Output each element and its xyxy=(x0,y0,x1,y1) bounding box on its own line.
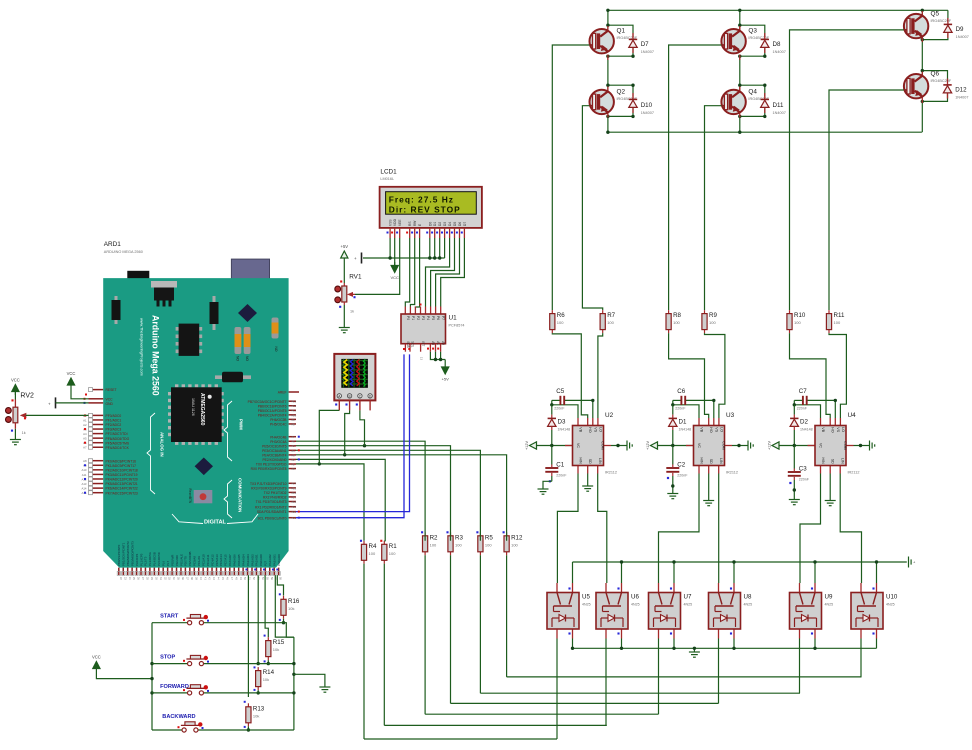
svg-text:R13: R13 xyxy=(253,705,265,712)
svg-text:A8: A8 xyxy=(83,459,87,463)
wire button pin right rail xyxy=(275,575,294,637)
svg-text:#17: #17 xyxy=(292,495,297,499)
wire U10 emitter to rail xyxy=(876,639,878,649)
ground U3 SD xyxy=(703,499,714,506)
svg-text:VC: VC xyxy=(819,443,823,448)
svg-text:#8: #8 xyxy=(292,422,296,426)
svg-text:1N4007: 1N4007 xyxy=(641,111,654,115)
svg-text:C6: C6 xyxy=(677,388,685,395)
svg-text:PWM: PWM xyxy=(239,419,244,430)
wire U9 emitter to rail xyxy=(814,639,816,649)
diode D12 xyxy=(943,79,968,100)
svg-text:100: 100 xyxy=(673,320,680,325)
wire Q2 gate to R7 xyxy=(582,106,602,310)
svg-text:R4: R4 xyxy=(369,543,377,550)
node Q5 junctions xyxy=(921,9,924,12)
svg-text:D8: D8 xyxy=(773,41,781,48)
svg-text:220nF: 220nF xyxy=(675,406,686,410)
svg-text:#20: #20 xyxy=(292,510,297,514)
svg-text:10k: 10k xyxy=(288,606,294,611)
svg-text:PB1/SCK/PCINT1: PB1/SCK/PCINT1 xyxy=(122,542,126,566)
svg-text:ON: ON xyxy=(236,355,240,361)
wire D0 down xyxy=(429,238,431,258)
resistor R4 xyxy=(361,541,377,564)
node U2 VB junction xyxy=(550,403,553,406)
svg-text:PF0/ADC0: PF0/ADC0 xyxy=(106,414,122,418)
svg-text:220nF: 220nF xyxy=(797,406,808,410)
wire VDD to VCC arrow xyxy=(394,238,396,265)
wire U8 collector to rail xyxy=(733,562,735,583)
optocoupler U6 xyxy=(596,583,640,639)
wire U2 LIN to U6 xyxy=(598,474,607,584)
wire R9 to U3 LO xyxy=(705,333,725,418)
wire button pin R16 xyxy=(277,575,283,595)
ground RV2 xyxy=(10,438,21,445)
svg-text:PE3/OC3A/AIN1: PE3/OC3A/AIN1 xyxy=(262,449,287,453)
wire Q3 collector to D8 cathode row xyxy=(740,25,765,36)
svg-text:#6: #6 xyxy=(292,440,296,444)
svg-text:VS: VS xyxy=(714,427,718,432)
svg-text:PG5/OC0B: PG5/OC0B xyxy=(188,551,192,566)
svg-text:R12: R12 xyxy=(511,534,523,541)
svg-text:PB3/MISO/PCINT3: PB3/MISO/PCINT3 xyxy=(130,541,134,566)
svg-text:ANALOG IN: ANALOG IN xyxy=(160,432,165,457)
svg-text:D1: D1 xyxy=(433,222,437,226)
node rail-U8 xyxy=(732,560,735,563)
svg-text:A13: A13 xyxy=(82,482,87,486)
power VCC down arrow xyxy=(390,262,399,280)
node erail-U5 xyxy=(571,647,574,650)
diode D8 xyxy=(761,33,786,54)
svg-text:PC1/A9: PC1/A9 xyxy=(197,556,201,566)
svg-text:LIN: LIN xyxy=(719,458,723,464)
svg-text:ON: ON xyxy=(275,346,279,352)
svg-text:Q1: Q1 xyxy=(617,28,626,35)
svg-text:COM: COM xyxy=(843,441,847,449)
svg-text:PK1/ADC9/PCINT17: PK1/ADC9/PCINT17 xyxy=(106,464,137,468)
svg-text:RS: RS xyxy=(408,221,412,226)
svg-text:PA0/AD0: PA0/AD0 xyxy=(259,554,263,566)
resistor R3 xyxy=(448,532,464,555)
wire VEE to RV1 xyxy=(355,238,400,294)
wire RW to U1 P1 xyxy=(410,238,414,307)
resistor R14 xyxy=(256,667,275,690)
wire U4 bootstrap net / VS node xyxy=(794,399,803,401)
power +5V terminal RV1 xyxy=(341,244,349,262)
wire FORWARD row xyxy=(152,692,188,694)
svg-text:PL5/OC5C: PL5/OC5C xyxy=(157,552,161,566)
transistor Q6 xyxy=(904,70,952,103)
wire R5 bottom xyxy=(479,555,481,693)
svg-text:RX1 PD2/RXD1/INT2: RX1 PD2/RXD1/INT2 xyxy=(255,505,287,509)
resistor R2 xyxy=(423,532,439,555)
wire VSS down xyxy=(389,238,391,258)
wire U4 COM xyxy=(854,445,868,447)
wire phase A midpoint xyxy=(607,56,609,92)
svg-text:PCF8574: PCF8574 xyxy=(449,324,465,328)
svg-text:D3: D3 xyxy=(443,222,447,226)
wire D5 to U1 P5 xyxy=(431,238,455,307)
svg-text:220nF: 220nF xyxy=(556,473,567,477)
node scope taps xyxy=(363,444,366,447)
svg-text:PF3/ADC3: PF3/ADC3 xyxy=(106,428,122,432)
wire R14 rows xyxy=(257,662,260,665)
svg-text:D2: D2 xyxy=(438,222,442,226)
svg-text:1N4007: 1N4007 xyxy=(641,50,654,54)
wire SDA I2C xyxy=(296,354,410,511)
wire R4 bottom xyxy=(363,564,365,739)
svg-text:PC5/A13: PC5/A13 xyxy=(215,554,219,566)
svg-text:4N25: 4N25 xyxy=(582,603,591,607)
wire START row xyxy=(152,622,188,624)
svg-text:PL4/OC5B: PL4/OC5B xyxy=(153,552,157,566)
svg-text:TX0 PE1/TXD0/PDO: TX0 PE1/TXD0/PDO xyxy=(256,463,287,467)
optocoupler U8 xyxy=(709,583,753,639)
svg-text:PC0/A8: PC0/A8 xyxy=(193,556,197,566)
svg-text:R10: R10 xyxy=(794,312,806,319)
svg-text:COMUNICATION: COMUNICATION xyxy=(238,478,243,512)
svg-text:100: 100 xyxy=(485,542,492,547)
wire staircase row to U5 xyxy=(364,738,557,740)
svg-text:PH4/OC4B: PH4/OC4B xyxy=(270,435,287,439)
svg-text:P1: P1 xyxy=(411,316,415,320)
svg-text:PF4/ADC4/TCK: PF4/ADC4/TCK xyxy=(106,446,130,450)
svg-text:BACKWARD: BACKWARD xyxy=(162,714,195,720)
wire scope A xyxy=(319,410,339,464)
svg-text:D11: D11 xyxy=(773,102,784,109)
svg-text:LO: LO xyxy=(719,427,723,432)
resistor R15 xyxy=(266,637,285,660)
capacitor C5 xyxy=(554,388,565,411)
svg-text:220nF: 220nF xyxy=(799,477,810,481)
wire RV1 to ground xyxy=(343,305,345,326)
wire Q4 collector to D11 cathode row xyxy=(740,85,765,96)
node Q2 collector junction xyxy=(606,84,609,87)
wire U10 collector to rail xyxy=(876,562,878,583)
svg-text:PL7: PL7 xyxy=(166,560,170,566)
svg-text:VS: VS xyxy=(593,427,597,432)
svg-text:4N25: 4N25 xyxy=(886,603,895,607)
svg-text:ARDUINO MEGA 2560: ARDUINO MEGA 2560 xyxy=(104,250,143,254)
wire D3 down xyxy=(444,238,446,258)
wire staircase row to U6 xyxy=(384,724,607,726)
wire U7 emitter to rail xyxy=(673,639,675,649)
svg-text:#18: #18 xyxy=(292,500,297,504)
node U3 VS junction xyxy=(712,399,715,402)
svg-text:#13: #13 xyxy=(292,400,297,404)
svg-text:HO: HO xyxy=(709,427,713,433)
wire R7 to U2 LO xyxy=(598,333,603,418)
svg-text:FORWARD: FORWARD xyxy=(160,684,189,690)
wire U10 LED to row xyxy=(860,639,862,677)
wire U7 LED to row xyxy=(658,639,660,715)
svg-text:VC: VC xyxy=(576,443,580,448)
svg-text:PA1/AD1: PA1/AD1 xyxy=(255,554,259,566)
svg-text:STOP: STOP xyxy=(160,655,175,661)
wire scope B xyxy=(345,410,350,454)
svg-text:PG0/WR: PG0/WR xyxy=(170,555,174,566)
transistor Q1 xyxy=(590,26,638,60)
svg-text:1N4148: 1N4148 xyxy=(800,427,813,431)
svg-text:1N4007: 1N4007 xyxy=(956,35,969,39)
wire SCL I2C xyxy=(296,354,404,517)
node U2 VC junction xyxy=(550,444,553,447)
svg-text:VCC: VCC xyxy=(67,371,76,376)
power +12V terminal U2 xyxy=(525,441,537,450)
svg-text:DIGITAL: DIGITAL xyxy=(204,520,227,526)
svg-text:VSS: VSS xyxy=(389,219,393,226)
optocoupler U5 xyxy=(547,583,591,639)
capacitor C7 xyxy=(797,388,808,411)
node erail-U7 xyxy=(672,647,675,650)
wire R16 to START row xyxy=(283,619,285,623)
wire to buttons ground xyxy=(294,674,325,685)
svg-text:RX0 PE0/RXD0/PCINT8: RX0 PE0/RXD0/PCINT8 xyxy=(251,467,287,471)
svg-text:P0: P0 xyxy=(406,316,410,320)
svg-text:PK2/ADC10/PCINT18: PK2/ADC10/PCINT18 xyxy=(106,468,138,472)
potentiometer RV1 xyxy=(335,274,362,314)
capacitor C1 xyxy=(545,446,567,483)
svg-text:Freq: 27.5 Hz: Freq: 27.5 Hz xyxy=(389,195,454,205)
node U4 VC junction xyxy=(793,444,796,447)
capacitor C2 xyxy=(666,446,688,484)
svg-text:RV1: RV1 xyxy=(349,274,362,281)
svg-text:A11: A11 xyxy=(82,473,87,477)
wire RV2 to ground xyxy=(14,429,16,438)
svg-text:220nF: 220nF xyxy=(554,406,565,410)
svg-text:R6: R6 xyxy=(557,312,565,319)
wire PE4 to R12 xyxy=(296,455,507,541)
svg-text:R8: R8 xyxy=(673,312,681,319)
svg-text:100: 100 xyxy=(709,320,716,325)
resistor R8 xyxy=(666,310,682,333)
terminal U3 COM return xyxy=(746,441,753,451)
svg-text:100: 100 xyxy=(369,551,376,556)
wire R8 to U3 HO xyxy=(669,333,709,418)
wire button pin R15 xyxy=(265,575,268,637)
resistor R7 xyxy=(600,310,616,333)
svg-text:PA4/AD4: PA4/AD4 xyxy=(241,554,245,566)
node Q6 junctions xyxy=(921,69,924,72)
svg-text:10k: 10k xyxy=(263,677,269,682)
IC U4 IR2112 xyxy=(808,412,860,475)
node rail junction A xyxy=(606,131,609,134)
svg-text:PK0/ADC8/PCINT16: PK0/ADC8/PCINT16 xyxy=(106,459,137,463)
svg-text:RV2: RV2 xyxy=(20,393,34,400)
Arduino bottom pins xyxy=(117,541,282,580)
svg-text:D7: D7 xyxy=(463,222,467,226)
svg-text:#21: #21 xyxy=(292,516,297,520)
wire C2 to ground xyxy=(672,483,674,492)
svg-text:#7: #7 xyxy=(292,435,296,439)
wire U2 +12V to VC xyxy=(537,445,573,447)
wire R2 bottom xyxy=(424,555,426,714)
wire R6 to U2 HO xyxy=(552,333,587,418)
diode D11 xyxy=(761,93,786,115)
capacitor C6 xyxy=(675,388,686,411)
svg-text:1N4148: 1N4148 xyxy=(679,427,692,431)
svg-text:R15: R15 xyxy=(273,639,285,646)
svg-text:VCC: VCC xyxy=(11,377,20,382)
svg-text:#5: #5 xyxy=(292,444,296,448)
transistor Q5 xyxy=(904,11,952,43)
svg-text:VDD: VDD xyxy=(393,218,397,226)
svg-text:100: 100 xyxy=(389,551,396,556)
wire button pin R13 xyxy=(247,575,249,697)
svg-text:+: + xyxy=(354,256,357,261)
wire VCC to board xyxy=(71,389,89,399)
wire C1 to ground xyxy=(543,481,552,487)
wire top DC+ rail xyxy=(608,9,948,11)
svg-text:R14: R14 xyxy=(263,669,275,676)
resistor R16 xyxy=(281,596,300,619)
svg-text:10k: 10k xyxy=(253,713,259,718)
svg-text:D5: D5 xyxy=(453,222,457,226)
svg-text:PD7/T0: PD7/T0 xyxy=(184,556,188,566)
svg-text:1N4007: 1N4007 xyxy=(773,111,786,115)
svg-text:#9: #9 xyxy=(292,418,296,422)
wire Q6 emitter to bottom rail xyxy=(921,101,923,132)
svg-text:VS: VS xyxy=(836,427,840,432)
wire U9 collector to rail xyxy=(814,562,816,583)
svg-text:1N4007: 1N4007 xyxy=(773,50,786,54)
svg-text:PK7/ADC15/PCINT23: PK7/ADC15/PCINT23 xyxy=(106,491,138,495)
wire RV2 wiper to analog pin xyxy=(26,414,89,416)
wire C3 to ground xyxy=(793,487,795,498)
wire VCC left rail xyxy=(151,623,153,730)
transistor Q4 xyxy=(721,87,769,118)
resistor R12 xyxy=(504,532,523,555)
svg-text:VCC: VCC xyxy=(92,654,101,659)
power +12V terminal U3 xyxy=(646,441,658,450)
svg-text:RW: RW xyxy=(413,220,417,226)
svg-text:PA7/AD7: PA7/AD7 xyxy=(228,554,232,566)
wire R1 bottom xyxy=(383,564,385,726)
wire U8 emitter to rail xyxy=(733,639,735,649)
resistor R11 xyxy=(826,310,845,333)
svg-text:4N25: 4N25 xyxy=(684,603,693,607)
svg-text:R1: R1 xyxy=(389,543,397,550)
svg-text:LM016L: LM016L xyxy=(380,177,394,181)
svg-text:U7: U7 xyxy=(684,594,692,601)
svg-text:PH6/OC2B: PH6/OC2B xyxy=(270,418,287,422)
svg-text:R9: R9 xyxy=(709,312,717,319)
IC U2 IR2112 xyxy=(565,412,617,475)
svg-text:D4: D4 xyxy=(448,222,452,226)
svg-text:1k: 1k xyxy=(350,310,354,314)
ground C2 xyxy=(667,492,678,499)
svg-text:PC6/A14: PC6/A14 xyxy=(219,554,223,566)
svg-text:C1: C1 xyxy=(556,461,564,468)
svg-text:D3: D3 xyxy=(558,419,566,426)
svg-text:A2: A2 xyxy=(83,423,87,427)
svg-text:PE4/OC3B/INT4: PE4/OC3B/INT4 xyxy=(262,454,286,458)
svg-text:U1: U1 xyxy=(449,315,458,322)
svg-text:TX2 PH1/TXD2: TX2 PH1/TXD2 xyxy=(264,491,287,495)
wire U4 LIN to U10 xyxy=(840,474,861,584)
svg-text:PB0/SS/PCINT0: PB0/SS/PCINT0 xyxy=(117,544,121,566)
wire U5 emitter to rail xyxy=(572,639,574,649)
svg-text:C2: C2 xyxy=(677,461,685,468)
node U4 VB junction xyxy=(793,403,796,406)
node Q1 collector junction xyxy=(606,24,609,27)
wire Q2 emitter to D10 anode row xyxy=(608,108,633,116)
svg-text:U9: U9 xyxy=(825,594,833,601)
svg-text:#3: #3 xyxy=(292,453,296,457)
wire PE3 to R5 xyxy=(296,450,480,541)
wire Q5-Q6 midpoint xyxy=(921,40,923,77)
wire bottom DC- rail xyxy=(608,131,922,133)
power VCC arrow left xyxy=(67,371,76,389)
svg-text:D0: D0 xyxy=(428,222,432,226)
svg-text:AREF: AREF xyxy=(278,391,287,395)
svg-text:PA5/AD5: PA5/AD5 xyxy=(237,554,241,566)
svg-text:PC3/A11: PC3/A11 xyxy=(206,554,210,566)
svg-text:LCD1: LCD1 xyxy=(380,168,397,175)
optocoupler U7 xyxy=(649,583,693,639)
svg-text:PB5/OC1A/PCINT5: PB5/OC1A/PCINT5 xyxy=(258,409,287,413)
wire button right rail xyxy=(293,637,295,730)
svg-text:#0: #0 xyxy=(292,467,296,471)
potentiometer RV2 xyxy=(5,393,33,435)
svg-text:D9: D9 xyxy=(956,26,964,33)
svg-text:ATMEGA2560: ATMEGA2560 xyxy=(199,393,205,426)
wire U2 SD to ground xyxy=(587,474,589,485)
wire U4 SD to ground xyxy=(829,474,831,500)
svg-text:+5V: +5V xyxy=(341,244,349,249)
svg-text:VB: VB xyxy=(579,427,583,432)
oscilloscope mini display xyxy=(334,354,375,411)
svg-text:PA6/AD6: PA6/AD6 xyxy=(233,554,237,566)
node Q1 emitter junction xyxy=(606,55,609,58)
wire U8 LED to row xyxy=(718,639,720,704)
svg-text:PL3/OC5A: PL3/OC5A xyxy=(148,552,152,566)
svg-text:U8: U8 xyxy=(744,594,752,601)
svg-text:10k: 10k xyxy=(273,647,279,652)
wire Q2 collector to D10 cathode row xyxy=(608,85,633,96)
svg-text:PL6: PL6 xyxy=(162,560,166,566)
wire Q6 collector to D12 cathode row xyxy=(922,71,947,82)
svg-text:PF7/ADC7/TDI: PF7/ADC7/TDI xyxy=(106,432,128,436)
ground buttons xyxy=(319,686,330,693)
svg-text:PG1/RD: PG1/RD xyxy=(175,555,179,566)
wire U5 LED to row xyxy=(556,639,558,740)
svg-text:TX3 PJ1/TXD3/PCINT10: TX3 PJ1/TXD3/PCINT10 xyxy=(250,482,287,486)
wire R15 to STOP row xyxy=(267,660,269,664)
svg-text:+5V: +5V xyxy=(442,377,450,382)
svg-text:A7: A7 xyxy=(83,446,87,450)
svg-text:#10: #10 xyxy=(292,413,297,417)
svg-text:SCL: SCL xyxy=(410,341,414,347)
svg-text:#12: #12 xyxy=(292,404,297,408)
node Q2 emitter junction xyxy=(606,115,609,118)
power +5V down arrow U1 xyxy=(442,364,450,382)
svg-text:GND: GND xyxy=(106,402,114,406)
svg-text:R11: R11 xyxy=(834,312,845,319)
wire U3 COM xyxy=(732,445,746,447)
terminal U2 COM return xyxy=(625,441,632,451)
svg-text:#15: #15 xyxy=(292,486,297,490)
svg-text:D7: D7 xyxy=(641,41,649,48)
wire U3 +12V to VC xyxy=(658,445,694,447)
node rail-U10 xyxy=(875,560,878,563)
svg-text:VCC: VCC xyxy=(106,397,114,401)
resistor R9 xyxy=(702,310,718,333)
wire D9 column from top rail xyxy=(947,10,949,21)
svg-text:ARD1: ARD1 xyxy=(104,241,121,248)
wire TX0 to R4 xyxy=(296,464,364,541)
resistor R1 xyxy=(382,541,398,564)
